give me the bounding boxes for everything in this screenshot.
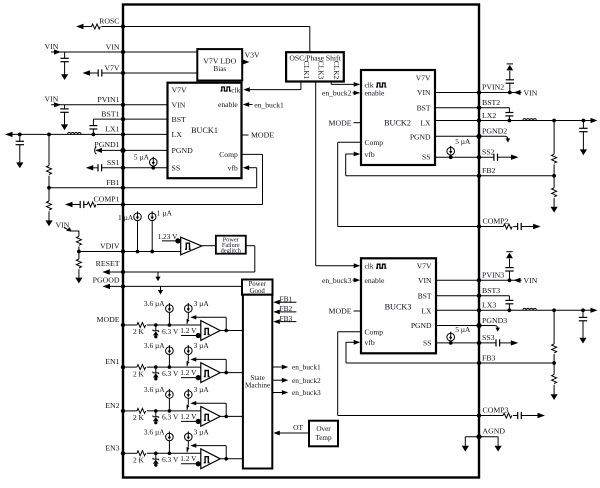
- svg-text:BST: BST: [418, 291, 432, 300]
- capacitor PVIN1 bypass: [64, 105, 66, 109]
- wire PGND3: [436, 325, 495, 327]
- regulator U-LDO V7V LDO Bias: [197, 49, 242, 80]
- wire comparator output EN3: [220, 458, 243, 460]
- node COMP2 at IC edge: [477, 224, 481, 228]
- power-ground symbol PGND2: [506, 136, 508, 139]
- svg-text:SS: SS: [172, 164, 181, 173]
- node LX1 at IC edge: [121, 132, 125, 136]
- capacitor C-BST1 bootstrap: [92, 119, 94, 126]
- wire LX3 output rail: [436, 309, 595, 311]
- svg-text:Comp: Comp: [365, 138, 384, 147]
- node ROSC at IC edge: [121, 24, 125, 28]
- current source I-SS1 5uA: [150, 158, 158, 166]
- node SS3 at IC edge: [477, 341, 481, 345]
- wire en_buck2 to BUCK2 enable: [353, 92, 355, 94]
- wire BST2: [435, 107, 509, 109]
- resistor R-FB1-bottom divider: [48, 188, 50, 201]
- svg-text:CLK1: CLK1: [302, 61, 311, 80]
- wire V7V to LDO: [123, 72, 197, 74]
- block U-SM State Machine: [243, 295, 272, 469]
- node FB2 divider tap: [552, 174, 556, 178]
- resistor R-VDIV-top: [76, 236, 81, 245]
- node LX2 at IC edge: [477, 118, 481, 122]
- wire FB1 to vfb BUCK1: [256, 168, 258, 188]
- compensation network COMP2: [479, 226, 503, 228]
- wire VIN to VDIV divider: [64, 228, 79, 237]
- svg-text:VIN: VIN: [56, 220, 70, 229]
- svg-text:PGND: PGND: [172, 146, 194, 155]
- node BST1 cap to LX1: [92, 133, 96, 137]
- wire en_buck1 from state machine: [272, 366, 282, 368]
- svg-text:1.23 V: 1.23 V: [158, 232, 179, 241]
- resistor R-EN2 2K: [123, 410, 137, 412]
- svg-text:5 µA: 5 µA: [134, 153, 150, 162]
- svg-text:PVIN3: PVIN3: [482, 271, 504, 280]
- wire PVIN3: [436, 279, 522, 281]
- resistor R-FB3-top divider: [552, 308, 556, 312]
- svg-text:3.6 µA: 3.6 µA: [144, 341, 165, 350]
- svg-text:COMP1: COMP1: [94, 195, 120, 204]
- svg-text:FB3: FB3: [482, 353, 496, 362]
- current source I-VDIV-1 1uA: [134, 213, 142, 221]
- ground VIN cap: [61, 74, 68, 80]
- svg-text:V7V: V7V: [417, 262, 432, 271]
- ground FB1 divider: [45, 220, 52, 226]
- compensation network COMP3: [479, 415, 503, 417]
- svg-text:en_buck3: en_buck3: [322, 276, 352, 285]
- svg-text:SS2: SS2: [482, 147, 495, 156]
- oscillator U-OSC OSC/Phase Shift: [286, 52, 344, 81]
- wire FB3 into state machine: [275, 321, 297, 323]
- resistor R-VDIV-bottom: [78, 252, 80, 260]
- capacitor C-SS3: [436, 342, 496, 344]
- svg-text:MODE: MODE: [97, 315, 120, 324]
- wire hysteresis feedback EN1: [224, 371, 228, 375]
- capacitor C-PVIN2: [508, 91, 512, 95]
- ground FB3 divider: [551, 394, 558, 400]
- wire en_buck1 to BUCK1 enable: [243, 102, 250, 107]
- wire Comp BUCK3 to COMP3: [338, 331, 361, 333]
- svg-text:3.6 µA: 3.6 µA: [144, 427, 165, 436]
- wire VIN input: [51, 51, 197, 53]
- svg-text:Bias: Bias: [213, 65, 226, 73]
- resistor R-FB2-bottom divider: [553, 176, 555, 188]
- node PVIN3 at IC edge: [477, 278, 481, 282]
- resistor ROSC external: [76, 24, 84, 29]
- wire en_buck3 from state machine: [272, 392, 282, 394]
- svg-text:PVIN1: PVIN1: [97, 95, 119, 104]
- node FB1 at IC edge: [121, 186, 125, 190]
- node PGND2 at IC edge: [476, 134, 481, 139]
- svg-text:SS: SS: [423, 339, 431, 348]
- wire FB3: [346, 362, 554, 364]
- svg-text:6.3 V: 6.3 V: [162, 455, 179, 464]
- ground PVIN1 cap: [61, 124, 68, 130]
- svg-text:2 K: 2 K: [133, 327, 145, 336]
- svg-text:Comp: Comp: [219, 150, 238, 159]
- wire CLK3 to BUCK3 clk: [315, 82, 317, 266]
- inductor L3: [523, 308, 537, 310]
- wire MODE stub BUCK2: [354, 122, 362, 124]
- wire PGOOD: [110, 285, 242, 287]
- node EN1 at IC edge: [121, 365, 125, 369]
- wire CLK2 to BUCK2 clk: [330, 82, 332, 85]
- wire VDIV: [79, 251, 181, 253]
- svg-text:deglitch: deglitch: [221, 247, 242, 254]
- svg-text:PVIN2: PVIN2: [482, 83, 504, 92]
- svg-text:PGND3: PGND3: [482, 316, 507, 325]
- node PVIN1 at IC edge: [121, 103, 125, 107]
- wire PVIN2: [435, 92, 522, 94]
- wire V3V output: [242, 61, 246, 63]
- comparator U-MODE: [201, 321, 220, 341]
- wire 1.2V reference EN1: [181, 377, 201, 379]
- svg-text:clk: clk: [365, 262, 374, 271]
- supply-arrow PVIN2 cap: [506, 65, 513, 71]
- svg-text:VIN: VIN: [418, 276, 432, 285]
- current source I-EN2-bias 3.6uA: [166, 391, 174, 399]
- node FB3 divider tap: [552, 361, 556, 365]
- node SS2 at IC edge: [477, 155, 481, 159]
- current source I-MODE-bias 3.6uA: [166, 305, 174, 313]
- resistor R-FB3-bottom divider: [553, 363, 555, 375]
- node EN2 at IC edge: [121, 409, 125, 413]
- wire 1.2V reference EN3: [181, 463, 201, 465]
- node SS1 at IC edge: [121, 166, 125, 170]
- svg-text:enable: enable: [365, 276, 385, 285]
- BUCK1 pin clk: [221, 87, 231, 91]
- svg-text:Machine: Machine: [245, 381, 270, 389]
- svg-text:VIN: VIN: [106, 42, 120, 51]
- node COMP1 at IC edge: [121, 202, 125, 206]
- capacitor C-BST2 bootstrap: [508, 108, 510, 113]
- comparator U-EN3: [201, 449, 220, 469]
- svg-text:PGOOD: PGOOD: [93, 275, 120, 284]
- node PGND1 at IC edge: [120, 148, 125, 153]
- svg-text:FB2: FB2: [280, 304, 293, 313]
- svg-text:BST: BST: [172, 115, 187, 124]
- ground FB2 divider: [551, 207, 558, 213]
- comparator U-EN2: [201, 407, 220, 427]
- wire deglitch to RESET: [246, 245, 255, 247]
- svg-text:5 µA: 5 µA: [455, 325, 471, 334]
- svg-text:3 µA: 3 µA: [194, 385, 210, 394]
- node RESET at IC edge: [121, 270, 125, 274]
- node VDIV at IC edge: [121, 249, 125, 253]
- current source I-SS3 5uA: [447, 333, 455, 341]
- svg-text:MODE: MODE: [251, 131, 274, 140]
- svg-text:MODE: MODE: [329, 307, 352, 316]
- svg-text:ROSC: ROSC: [99, 17, 119, 26]
- converter U-BUCK1: [168, 83, 242, 179]
- svg-text:LX3: LX3: [482, 301, 496, 310]
- svg-text:PGND1: PGND1: [94, 140, 119, 149]
- zener D-EN2 6.3V: [154, 409, 158, 413]
- wire COMP1 to Comp BUCK1: [123, 204, 263, 206]
- svg-text:BST1: BST1: [101, 109, 119, 118]
- svg-text:AGND: AGND: [483, 427, 506, 436]
- svg-text:BUCK1: BUCK1: [191, 126, 218, 135]
- wire OT to state machine: [275, 432, 310, 434]
- svg-text:1.2 V: 1.2 V: [180, 326, 197, 335]
- svg-text:FB1: FB1: [280, 294, 293, 303]
- wire comparator output EN1: [220, 372, 243, 374]
- block U-PG Power Good: [242, 280, 273, 295]
- svg-text:VIN: VIN: [45, 94, 59, 103]
- svg-text:BUCK2: BUCK2: [384, 118, 411, 127]
- comparator U-EN1: [201, 363, 220, 383]
- resistor R-EN1 2K: [123, 366, 137, 368]
- node FB2 at IC edge: [477, 174, 481, 178]
- svg-text:LX2: LX2: [482, 111, 496, 120]
- node BST3 at IC edge: [477, 294, 481, 298]
- wire LX1 output rail: [5, 132, 13, 137]
- wire BST3: [436, 295, 509, 297]
- zener D-MODE 6.3V: [154, 323, 158, 327]
- capacitor C-SS2: [435, 156, 494, 158]
- svg-text:en_buck2: en_buck2: [322, 89, 352, 98]
- svg-text:2 K: 2 K: [133, 369, 145, 378]
- svg-text:2 K: 2 K: [133, 456, 145, 465]
- svg-text:enable: enable: [365, 89, 385, 98]
- resistor R-FB1-top divider: [47, 133, 51, 137]
- wire PGND2: [435, 135, 506, 137]
- svg-text:BST: BST: [417, 103, 431, 112]
- svg-text:RESET: RESET: [96, 259, 120, 268]
- node FB3 at IC edge: [477, 361, 481, 365]
- svg-text:VIN: VIN: [417, 88, 431, 97]
- svg-text:3.6 µA: 3.6 µA: [144, 299, 165, 308]
- svg-text:VDIV: VDIV: [100, 242, 120, 251]
- wire LX2 output rail: [435, 120, 595, 122]
- svg-text:vfb: vfb: [365, 338, 375, 347]
- svg-text:VIN: VIN: [172, 101, 186, 110]
- svg-text:LX: LX: [421, 306, 432, 315]
- wire comparator output EN2: [220, 415, 243, 417]
- wire PGOOD branch down: [160, 286, 162, 291]
- wire 1.23V reference: [162, 240, 181, 242]
- node COMP3 at IC edge: [477, 413, 481, 417]
- svg-text:6.3 V: 6.3 V: [162, 413, 179, 422]
- wire en_buck2 from state machine: [272, 379, 282, 381]
- svg-text:PGND2: PGND2: [482, 127, 507, 136]
- wire 1.2V reference MODE: [181, 335, 201, 337]
- svg-text:Comp: Comp: [365, 327, 384, 336]
- ground VDIV divider: [75, 278, 82, 284]
- compensation network COMP1: [65, 202, 73, 207]
- node VIN at IC edge: [121, 50, 125, 54]
- svg-text:6.3 V: 6.3 V: [162, 327, 179, 336]
- svg-text:PGND: PGND: [410, 132, 431, 141]
- node VDIV divider tap: [77, 250, 81, 254]
- ground AGND right: [495, 446, 502, 452]
- svg-text:en_buck3: en_buck3: [292, 388, 321, 397]
- node BST1 at IC edge: [121, 117, 125, 121]
- svg-text:Over: Over: [316, 425, 331, 433]
- converter U-BUCK2: [361, 70, 435, 165]
- wire FB2: [346, 175, 554, 177]
- svg-text:1.2 V: 1.2 V: [180, 368, 197, 377]
- ground C-OUT1: [16, 162, 23, 168]
- svg-text:V7V: V7V: [172, 86, 188, 95]
- wire PGND1: [96, 149, 168, 151]
- svg-text:1 µA: 1 µA: [157, 209, 173, 218]
- current source I-EN2-hyst 3uA: [185, 391, 193, 399]
- svg-text:vfb: vfb: [365, 150, 375, 159]
- node FB1 divider tap: [47, 186, 51, 190]
- svg-text:BUCK3: BUCK3: [385, 302, 412, 311]
- current source I-EN3-hyst 3uA: [185, 433, 193, 441]
- svg-text:1.2 V: 1.2 V: [180, 454, 197, 463]
- capacitor C-OUT3: [581, 308, 585, 312]
- svg-text:FB2: FB2: [482, 166, 496, 175]
- block U-deglitch Power Failure deglitch: [216, 236, 246, 254]
- current source I-EN1-hyst 3uA: [185, 347, 193, 355]
- capacitor VIN input bypass: [64, 52, 66, 58]
- ground C-OUT2: [580, 149, 587, 155]
- wire PVIN1 input: [51, 104, 168, 106]
- wire AGND: [465, 436, 498, 438]
- svg-text:1.2 V: 1.2 V: [180, 412, 197, 421]
- svg-text:vfb: vfb: [228, 163, 238, 172]
- svg-text:SS1: SS1: [107, 158, 120, 167]
- svg-text:clk: clk: [231, 85, 240, 94]
- svg-text:2 K: 2 K: [133, 413, 145, 422]
- svg-text:LX: LX: [172, 130, 183, 139]
- wire FB2 into state machine: [275, 311, 297, 313]
- wire FB1 into state machine: [275, 301, 297, 303]
- node AGND at IC edge: [476, 434, 481, 439]
- resistor R-EN3 2K: [123, 452, 137, 454]
- wire RESET branch down: [157, 272, 159, 278]
- node PGND3 at IC edge: [476, 323, 481, 328]
- resistor R-MODE 2K: [123, 324, 137, 326]
- svg-text:en_buck1: en_buck1: [292, 363, 321, 372]
- IC package outline: [123, 5, 479, 478]
- svg-text:VIN: VIN: [524, 276, 538, 285]
- svg-text:3 µA: 3 µA: [194, 299, 210, 308]
- svg-text:BST3: BST3: [482, 286, 500, 295]
- capacitor C-BST3 bootstrap: [508, 296, 510, 301]
- svg-text:6.3 V: 6.3 V: [162, 369, 179, 378]
- capacitor C-OUT2: [582, 119, 586, 123]
- node PVIN2 at IC edge: [477, 90, 481, 94]
- svg-text:LX: LX: [420, 118, 431, 127]
- ground AGND left: [462, 446, 469, 452]
- wire FB2 to vfb BUCK2: [345, 154, 347, 176]
- svg-text:EN3: EN3: [105, 443, 119, 452]
- power-ground symbol PGND3: [495, 326, 497, 329]
- wire Comp BUCK2 to COMP2: [338, 141, 361, 143]
- current source I-SS2 5uA: [447, 147, 455, 155]
- comparator U-PF power-fail: [181, 237, 202, 255]
- ground C-OUT3: [579, 338, 586, 344]
- svg-text:SS: SS: [422, 153, 430, 162]
- svg-text:Temp: Temp: [315, 434, 332, 442]
- node PGOOD at IC edge: [121, 284, 125, 288]
- current source I-VDIV-2 1uA: [148, 213, 156, 221]
- capacitor C-SS1: [86, 165, 94, 170]
- svg-text:CLK2: CLK2: [332, 61, 341, 80]
- wire ROSC to oscillator: [123, 26, 310, 28]
- node V7V at IC edge: [121, 71, 125, 75]
- capacitor C-OUT1: [18, 133, 22, 137]
- wire comparator output MODE: [220, 330, 243, 332]
- svg-text:SS3: SS3: [482, 333, 495, 342]
- wire hysteresis feedback MODE: [224, 329, 228, 333]
- svg-text:FB1: FB1: [106, 178, 120, 187]
- svg-text:PGND: PGND: [411, 321, 432, 330]
- current source I-MODE-hyst 3uA: [185, 305, 193, 313]
- power-ground symbol PGND1: [95, 148, 102, 153]
- converter U-BUCK3: [361, 258, 436, 353]
- zener D-EN3 6.3V: [154, 452, 158, 456]
- node MODE at IC edge: [121, 323, 125, 327]
- svg-text:3 µA: 3 µA: [194, 341, 210, 350]
- svg-text:1 µA: 1 µA: [118, 213, 134, 222]
- svg-text:enable: enable: [218, 100, 238, 109]
- wire hysteresis feedback EN2: [224, 415, 228, 419]
- wire FB1: [49, 187, 257, 189]
- wire 1.2V reference EN2: [181, 420, 201, 422]
- inductor L1: [68, 133, 82, 135]
- svg-text:BST2: BST2: [482, 98, 500, 107]
- wire en_buck3 to BUCK3 enable: [353, 279, 355, 281]
- inductor L2: [523, 119, 537, 121]
- wire hysteresis feedback EN3: [224, 457, 228, 461]
- wire CLK1 to BUCK1 clk: [300, 82, 302, 90]
- svg-text:EN1: EN1: [105, 357, 119, 366]
- node EN3 at IC edge: [121, 451, 125, 455]
- wire comparator to deglitch: [202, 245, 216, 247]
- current source I-EN3-bias 3.6uA: [166, 433, 174, 441]
- zener D-EN1 6.3V: [154, 365, 158, 369]
- svg-text:VIN: VIN: [45, 42, 59, 51]
- svg-text:V7V: V7V: [104, 63, 120, 72]
- svg-text:FB3: FB3: [280, 314, 293, 323]
- node LX3 at IC edge: [477, 308, 481, 312]
- svg-text:VIN: VIN: [524, 88, 538, 97]
- svg-text:V3V: V3V: [245, 51, 261, 60]
- wire BST1: [93, 118, 167, 120]
- capacitor C-PVIN3: [508, 278, 512, 282]
- svg-text:5 µA: 5 µA: [455, 137, 471, 146]
- node BST2 at IC edge: [477, 106, 481, 110]
- wire MODE stub BUCK1: [242, 134, 249, 136]
- wire MODE stub BUCK3: [354, 310, 362, 312]
- current source I-EN1-bias 3.6uA: [166, 347, 174, 355]
- svg-text:V7V: V7V: [416, 73, 431, 82]
- svg-text:3.6 µA: 3.6 µA: [144, 385, 165, 394]
- svg-text:CLK3: CLK3: [317, 61, 326, 80]
- svg-text:en_buck2: en_buck2: [292, 376, 321, 385]
- svg-text:OT: OT: [293, 423, 303, 432]
- svg-text:en_buck1: en_buck1: [254, 100, 284, 109]
- capacitor V7V bypass: [83, 70, 91, 75]
- supply-arrow PVIN3 cap: [506, 253, 513, 259]
- svg-text:LX1: LX1: [105, 125, 119, 134]
- block U-OT Over Temp: [309, 421, 338, 447]
- svg-text:3 µA: 3 µA: [194, 427, 210, 436]
- resistor R-FB2-top divider: [552, 119, 556, 123]
- wire FB3 to vfb BUCK3: [345, 342, 347, 363]
- svg-text:EN2: EN2: [105, 401, 119, 410]
- svg-text:MODE: MODE: [329, 118, 352, 127]
